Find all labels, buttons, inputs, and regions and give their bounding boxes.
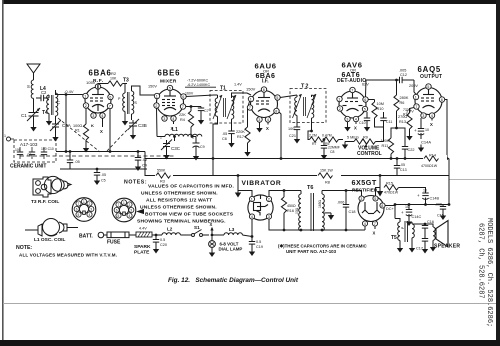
wire: lower bus y175 <box>145 159 449 176</box>
capacitor C12 <box>366 69 414 84</box>
antenna <box>27 64 40 80</box>
bottom rail of power section <box>301 229 365 231</box>
tube V6 6X5GT <box>358 196 384 222</box>
pin 4 <box>100 113 105 118</box>
transformer T3 <box>118 78 138 121</box>
terminal 1 <box>7 137 11 141</box>
svg-text:7: 7 <box>351 89 353 93</box>
transformer T4 <box>42 90 60 120</box>
svg-text:C: C <box>57 100 60 105</box>
svg-text:R6: R6 <box>400 101 405 105</box>
pin 4 <box>362 221 367 226</box>
capacitor C14C <box>401 205 421 220</box>
resistor R10 <box>368 100 384 122</box>
T6 secondary <box>321 191 323 195</box>
svg-text:6BE6: 6BE6 <box>158 69 181 78</box>
models label (vertical) <box>477 218 494 327</box>
variable capacitor C3C <box>161 140 181 153</box>
svg-text:R13: R13 <box>399 120 406 124</box>
tube socket bottom view B <box>112 198 136 222</box>
vib pin 2 <box>266 196 271 201</box>
svg-text:BATT.: BATT. <box>79 234 93 240</box>
wire 6AV6 plate up to C12 <box>365 80 368 97</box>
svg-text:3: 3 <box>346 118 348 122</box>
svg-text:R16: R16 <box>287 209 294 213</box>
wire C16 junction to speaker <box>425 224 433 227</box>
svg-text:-6.2V-1400KC: -6.2V-1400KC <box>187 83 211 87</box>
svg-text:3: 3 <box>258 118 260 122</box>
svg-text:1: 1 <box>251 198 253 202</box>
svg-text:3: 3 <box>130 209 132 213</box>
resistor R5 <box>312 134 343 147</box>
svg-text:100K: 100K <box>381 139 390 143</box>
svg-text:6: 6 <box>182 95 184 99</box>
resistor R8 <box>317 169 341 185</box>
svg-text:550K: 550K <box>157 169 166 173</box>
svg-text:X: X <box>100 129 103 134</box>
svg-text:R15: R15 <box>386 182 393 186</box>
wire pin6 to B+ rail <box>445 100 447 159</box>
svg-text:1: 1 <box>250 98 252 102</box>
pin 5 <box>167 85 172 90</box>
svg-text:R11: R11 <box>382 144 389 148</box>
svg-text:-0.4V: -0.4V <box>64 89 74 94</box>
svg-text:7: 7 <box>109 105 111 109</box>
svg-text:C11: C11 <box>386 120 392 124</box>
svg-text:T4: T4 <box>42 110 48 116</box>
dial lamp <box>209 237 243 258</box>
svg-text:270Ω: 270Ω <box>398 115 407 119</box>
pin 1 <box>248 96 253 101</box>
svg-text:T1: T1 <box>220 86 226 92</box>
wire pin8 to B rail <box>385 205 409 206</box>
svg-text:105V: 105V <box>86 80 96 85</box>
svg-text:3: 3 <box>268 215 270 219</box>
resistor R1 <box>73 108 89 145</box>
coil L3 <box>212 227 252 237</box>
svg-text:UNLESS OTHERWISE SHOWN.: UNLESS OTHERWISE SHOWN. <box>140 205 217 211</box>
spark plate <box>134 227 152 256</box>
svg-text:S: S <box>27 84 30 89</box>
svg-text:DIAL LAMP: DIAL LAMP <box>219 247 243 252</box>
svg-text:OUTPUT: OUTPUT <box>420 74 442 80</box>
pin 7 <box>107 103 112 108</box>
variable capacitor C3B <box>128 119 147 132</box>
pin 4 <box>265 117 270 122</box>
bottom border bar <box>0 340 500 346</box>
svg-text:150V: 150V <box>246 87 256 92</box>
X below pin7 <box>374 226 376 229</box>
svg-text:DC+: DC+ <box>386 207 394 211</box>
svg-text:15K 1W: 15K 1W <box>320 169 333 173</box>
wire: B+ bus y158 <box>145 152 449 159</box>
pin 3 <box>421 113 426 118</box>
capacitor C14B <box>405 188 439 205</box>
svg-text:6: 6 <box>109 96 111 100</box>
resistor R4 <box>179 107 194 138</box>
svg-text:C16: C16 <box>427 220 434 224</box>
T2 primary winding <box>293 94 302 120</box>
svg-text:T3: T3 <box>123 78 129 84</box>
wire pin3 to bottom rail <box>269 219 301 230</box>
pin 8 <box>380 203 385 208</box>
T6 primary <box>300 191 302 195</box>
svg-text:T3 R.F. COIL: T3 R.F. COIL <box>31 199 59 205</box>
oscillator coil L1 <box>157 108 202 141</box>
capacitor C13 <box>394 157 407 175</box>
svg-text:X: X <box>210 222 213 227</box>
wire AVC from pin1 down-left <box>65 95 67 152</box>
resistor R2 <box>108 71 127 86</box>
svg-text:.03Ω: .03Ω <box>295 207 299 215</box>
svg-text:T5: T5 <box>391 235 397 241</box>
svg-text:3: 3 <box>163 117 165 121</box>
svg-text:6BA6: 6BA6 <box>89 69 112 78</box>
svg-text:470Ω1W: 470Ω1W <box>384 191 399 195</box>
pin 2 <box>337 106 342 111</box>
svg-text:C3C: C3C <box>171 146 181 151</box>
pin 3 <box>257 117 262 122</box>
switch S1 <box>187 225 209 237</box>
pin 6 <box>181 94 186 99</box>
svg-text:.05: .05 <box>75 160 80 164</box>
svg-text:Fig. 12. Schematic Diagram—C: Fig. 12. Schematic Diagram—Control Unit <box>168 277 299 284</box>
svg-text:FUSE: FUSE <box>107 240 121 246</box>
transformer T6 <box>295 185 334 231</box>
T1 dashed box <box>210 91 243 124</box>
svg-text:4700Ω1W: 4700Ω1W <box>421 164 438 168</box>
svg-text:MODELS 6286, Ch. 528.6286;: MODELS 6286, Ch. 528.6286; <box>485 218 493 327</box>
svg-text:220K: 220K <box>236 130 245 134</box>
resistor R16 <box>281 189 296 231</box>
pin 6 <box>363 97 368 102</box>
pin 1 <box>337 96 342 101</box>
pin 5 <box>95 84 100 89</box>
svg-text:2: 2 <box>155 104 157 108</box>
svg-text:1: 1 <box>415 96 417 100</box>
svg-text:10: 10 <box>423 189 427 193</box>
T2 secondary winding <box>307 94 316 126</box>
pin 4 <box>171 116 176 121</box>
svg-text:C21: C21 <box>289 134 296 138</box>
fold line right <box>449 179 496 180</box>
svg-text:4: 4 <box>267 118 269 122</box>
svg-text:7: 7 <box>374 222 376 226</box>
svg-text:10M: 10M <box>377 102 384 106</box>
wire: B+ down right <box>448 159 450 205</box>
top rail of power section <box>284 190 301 192</box>
wire T1 primary bottom <box>213 120 218 176</box>
svg-text:5: 5 <box>364 108 366 112</box>
resistor R7 <box>308 126 324 142</box>
wire pin5 up to R15 <box>376 188 381 196</box>
left border line <box>2 0 4 340</box>
resistor R3 <box>155 169 173 184</box>
capacitor inside 3 <box>41 147 54 159</box>
svg-text:7: 7 <box>415 105 417 109</box>
svg-text:C22: C22 <box>408 148 415 152</box>
T3 RF coil pictorial <box>33 176 71 197</box>
pin 6 <box>261 87 266 92</box>
svg-text:2.2M: 2.2M <box>309 134 317 138</box>
svg-text:X: X <box>266 126 269 131</box>
svg-text:4: 4 <box>355 118 357 122</box>
svg-text:2: 2 <box>85 104 87 108</box>
svg-text:150V: 150V <box>148 85 157 89</box>
svg-text:PLATE: PLATE <box>134 250 150 256</box>
tube V1 6BA6 <box>85 87 111 113</box>
capacitor C15 <box>435 203 449 218</box>
svg-text:C19: C19 <box>256 245 263 249</box>
svg-text:1: 1 <box>123 201 125 205</box>
svg-text:NOTE:: NOTE: <box>16 245 32 251</box>
wire T1 secondary top to 6AU6 grid <box>232 93 252 95</box>
svg-text:3: 3 <box>422 114 424 118</box>
capacitor C14A <box>414 118 431 145</box>
svg-text:1: 1 <box>84 95 86 99</box>
svg-text:CERAMIC UNIT: CERAMIC UNIT <box>10 164 46 170</box>
svg-text:R17: R17 <box>237 135 244 139</box>
svg-text:450Ω: 450Ω <box>287 204 296 208</box>
svg-text:C4: C4 <box>142 164 147 168</box>
svg-text:10: 10 <box>405 205 409 209</box>
svg-text:5: 5 <box>276 96 278 100</box>
svg-text:6287, Ch, 528.6287: 6287, Ch, 528.6287 <box>477 223 485 299</box>
svg-text:3: 3 <box>90 208 92 212</box>
svg-text:R10: R10 <box>377 107 384 111</box>
svg-text:R7: R7 <box>312 142 317 146</box>
pin 4 <box>429 113 434 118</box>
resistor R11 <box>381 134 394 160</box>
pin 7 <box>247 105 252 110</box>
capacitor C17 <box>416 239 428 251</box>
svg-text:7: 7 <box>78 202 80 206</box>
pin 3 <box>345 116 350 121</box>
pin 5 top <box>426 84 431 89</box>
svg-text:4: 4 <box>431 114 433 118</box>
svg-text:L1 OSC. COIL: L1 OSC. COIL <box>34 237 66 243</box>
wire: AVC bus y151 <box>56 151 145 153</box>
svg-text:1.4V: 1.4V <box>234 83 242 87</box>
svg-text:C8: C8 <box>330 150 335 154</box>
capacitor C2 <box>36 90 49 101</box>
T6 secondary tap to ground <box>324 212 331 214</box>
svg-text:ALL RESISTORS 1/2 WATT: ALL RESISTORS 1/2 WATT <box>146 198 212 204</box>
svg-text:SPARK: SPARK <box>134 244 151 250</box>
T6 core <box>310 193 312 231</box>
svg-text:5: 5 <box>427 85 429 89</box>
svg-text:NOTES:: NOTES: <box>124 180 147 186</box>
svg-text:5 MEG: 5 MEG <box>347 136 359 140</box>
resistor R15 <box>384 182 405 195</box>
svg-text:I.F.: I.F. <box>262 79 269 85</box>
pin 1 <box>413 94 418 99</box>
svg-text:(✱)THESE CAPACITORS ARE IN CER: (✱)THESE CAPACITORS ARE IN CERAMIC <box>278 244 368 249</box>
speaker <box>430 221 461 252</box>
svg-text:T2: T2 <box>301 84 309 90</box>
svg-text:C2: C2 <box>41 90 47 95</box>
svg-text:C5: C5 <box>101 179 106 183</box>
svg-text:+: + <box>417 193 420 198</box>
svg-text:S1: S1 <box>194 225 200 230</box>
coil L2 <box>162 227 187 236</box>
capacitor C3 <box>67 150 80 169</box>
wire mixer plate to T1 <box>186 95 214 97</box>
pin 7 <box>180 104 185 109</box>
svg-text:1: 1 <box>156 95 158 99</box>
wire R10/C11 to volume bus <box>375 121 384 142</box>
svg-text:C7: C7 <box>204 109 209 113</box>
svg-text:R2: R2 <box>111 71 117 76</box>
svg-text:C13: C13 <box>400 168 407 172</box>
wire plate to T2 <box>280 95 297 98</box>
svg-text:A17-103: A17-103 <box>20 142 38 147</box>
T2 dashed box <box>290 89 326 123</box>
T1 secondary winding <box>227 95 236 128</box>
pin 2 <box>83 103 88 108</box>
capacitor C4 <box>135 150 147 167</box>
svg-text:7: 7 <box>249 106 251 110</box>
svg-text:4: 4 <box>101 114 103 118</box>
tube V5 6AQ5 <box>415 88 442 115</box>
resistor R13 <box>398 108 414 134</box>
svg-text:10K: 10K <box>110 77 117 81</box>
pin 5 <box>373 196 378 201</box>
svg-text:.05: .05 <box>101 173 106 177</box>
svg-text:6: 6 <box>263 88 265 92</box>
svg-text:6: 6 <box>441 98 443 102</box>
pin 3 <box>91 113 96 118</box>
ground arrow below R15 left <box>379 176 381 192</box>
pin 3 <box>162 116 167 121</box>
svg-text:ALL VOLTAGES MEASURED WITH V.T: ALL VOLTAGES MEASURED WITH V.T.V.M. <box>19 253 117 258</box>
svg-text:2: 2 <box>339 107 341 111</box>
wire pin4 to battery line <box>251 219 253 236</box>
wire 6X5 B+ down to T5 <box>394 205 396 219</box>
capacitor C10 <box>359 112 370 125</box>
svg-text:5: 5 <box>374 197 376 201</box>
svg-text:C18: C18 <box>349 210 356 214</box>
svg-text:L2: L2 <box>167 227 173 232</box>
L1 OSC coil pictorial <box>25 219 78 237</box>
svg-text:2: 2 <box>89 202 91 206</box>
ground below T4 <box>46 118 52 126</box>
top border bar <box>2 0 500 4</box>
svg-text:C20: C20 <box>160 243 167 247</box>
svg-text:K: K <box>91 123 94 128</box>
fold line lower <box>3 303 496 304</box>
svg-text:6: 6 <box>116 209 118 213</box>
svg-text:P: P <box>118 97 121 101</box>
T1 core <box>223 98 225 117</box>
ground below T3 primary <box>122 118 128 126</box>
notes line 5 with arrow <box>136 209 144 214</box>
tube V4 6AV6 <box>339 91 366 118</box>
svg-text:SHOWING TERMINAL NUMBERING.: SHOWING TERMINAL NUMBERING. <box>137 219 226 225</box>
svg-text:0.5: 0.5 <box>256 240 261 244</box>
svg-text:R4: R4 <box>180 118 185 122</box>
capacitor C22 <box>402 141 415 160</box>
svg-text:C10: C10 <box>359 121 366 125</box>
capacitor C8B <box>321 138 340 154</box>
svg-text:22K: 22K <box>179 113 186 117</box>
svg-text:R3: R3 <box>160 180 165 184</box>
svg-text:5: 5 <box>118 214 120 218</box>
svg-text:.05: .05 <box>400 163 405 167</box>
pin 7 top <box>350 87 355 92</box>
svg-text:4.4V: 4.4V <box>139 227 147 231</box>
svg-text:C14C: C14C <box>412 215 422 219</box>
right border band <box>496 0 500 346</box>
vibrator G1 <box>248 195 273 220</box>
capacitor inside 1 <box>15 147 23 159</box>
wire pin4 down to rail <box>364 226 366 230</box>
svg-text:C9: C9 <box>200 145 205 149</box>
capacitor inside 2 <box>27 147 35 159</box>
svg-text:2: 2 <box>268 198 270 202</box>
svg-text:6: 6 <box>76 208 78 212</box>
svg-text:C17: C17 <box>416 247 423 251</box>
svg-text:MIXER: MIXER <box>160 79 177 85</box>
svg-text:C1: C1 <box>21 113 27 118</box>
svg-text:7: 7 <box>182 105 184 109</box>
T1 primary winding <box>213 95 222 120</box>
svg-text:X: X <box>430 122 433 127</box>
fuse <box>107 232 129 238</box>
resistor R6 <box>391 80 412 141</box>
pin 5 <box>362 106 367 111</box>
svg-text:100 C10: 100 C10 <box>41 147 54 151</box>
svg-text:6AQ5: 6AQ5 <box>418 65 442 74</box>
capacitor C19 <box>249 237 263 250</box>
wire T4 secondary top to grid <box>56 90 83 95</box>
svg-text:1: 1 <box>4 134 6 138</box>
svg-text:6X5GT: 6X5GT <box>352 178 377 187</box>
svg-text:100: 100 <box>288 127 294 131</box>
wire C12 to grid pin1 <box>414 80 416 94</box>
svg-text:3: 3 <box>360 197 362 201</box>
capacitor C21 <box>288 120 300 138</box>
tube V3 6AU6 <box>251 91 278 118</box>
svg-text:.02: .02 <box>142 158 147 162</box>
svg-text:X: X <box>354 126 357 131</box>
svg-text:10: 10 <box>425 128 429 132</box>
T2 core <box>303 97 305 116</box>
coil L4 <box>27 80 46 110</box>
svg-text:0.47M: 0.47M <box>322 134 332 138</box>
svg-text:T6: T6 <box>307 185 313 191</box>
svg-text:0.5: 0.5 <box>160 238 165 242</box>
svg-text:3: 3 <box>92 114 94 118</box>
ground below pin3 <box>347 122 349 124</box>
svg-text:SPEAKER: SPEAKER <box>434 244 460 250</box>
svg-text:R1: R1 <box>75 129 80 133</box>
svg-text:C14A: C14A <box>421 140 431 145</box>
pin 8 <box>274 108 279 113</box>
vib pin 3 <box>266 214 271 219</box>
svg-text:R8: R8 <box>325 181 330 185</box>
svg-text:VIBRATOR: VIBRATOR <box>242 180 282 187</box>
resistor R14 <box>421 154 447 169</box>
pin 1 <box>83 93 88 98</box>
padder capacitor C9 <box>193 137 205 154</box>
capacitor C7 <box>190 105 209 117</box>
svg-text:4: 4 <box>89 213 91 217</box>
variable capacitor C1 <box>21 108 40 124</box>
svg-text:CONTROL: CONTROL <box>357 151 382 157</box>
svg-text:4: 4 <box>364 222 366 226</box>
svg-text:6: 6 <box>364 98 366 102</box>
